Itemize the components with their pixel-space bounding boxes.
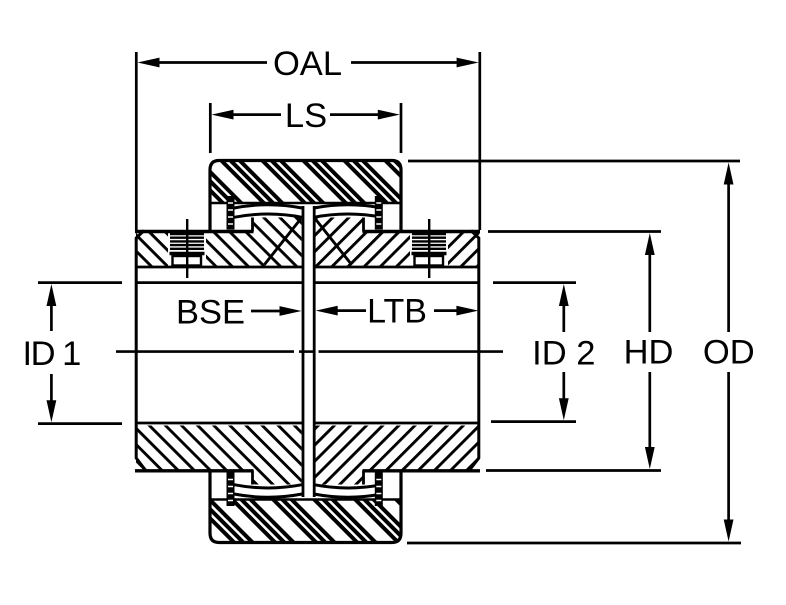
svg-text:ID 1: ID 1: [23, 335, 81, 373]
svg-text:HD: HD: [624, 334, 674, 372]
svg-text:OAL: OAL: [273, 45, 342, 83]
svg-text:BSE: BSE: [176, 294, 245, 332]
svg-text:ID 2: ID 2: [532, 335, 595, 373]
svg-text:LS: LS: [285, 97, 327, 135]
svg-text:LTB: LTB: [367, 293, 427, 331]
svg-text:OD: OD: [703, 334, 755, 372]
